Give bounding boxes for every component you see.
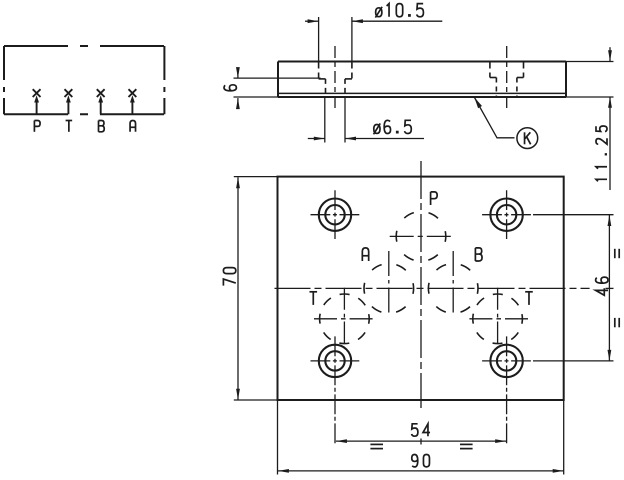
symbol port arrow B (100, 101, 102, 114)
symbol port label A (130, 121, 135, 132)
dimension 54 (336, 440, 506, 442)
symbol port label P (33, 121, 35, 132)
symbol port label B (98, 121, 100, 132)
bolt hole bottom-left crosshair (311, 360, 360, 362)
bolt hole top-right (490, 199, 522, 231)
symbol port arrow A (131, 101, 133, 114)
left counterbore hole (hidden lines) (319, 63, 352, 98)
dimension 46 (533, 215, 614, 361)
port T left label (309, 291, 317, 293)
symbol port label T (66, 120, 73, 122)
front view: horizontal centerline (275, 287, 590, 289)
bolt hole top-left crosshair (311, 214, 360, 216)
left hole centerline (334, 46, 336, 110)
port T right crosshair (469, 318, 528, 320)
port T right label (525, 291, 533, 293)
port A label (362, 248, 368, 261)
equal mark right (54) (460, 444, 473, 448)
port T left crosshair (314, 318, 373, 320)
port B label (474, 248, 476, 261)
bolt hole bottom-right crosshair (482, 360, 531, 362)
bolt hole bottom-left (319, 345, 351, 377)
equal mark left (54) (370, 444, 383, 448)
right counterbore hole (hidden lines) (490, 63, 524, 99)
equal mark lower (46) (615, 318, 619, 327)
symbol plugged mark A (x) (129, 89, 137, 97)
leader K (475, 98, 515, 138)
front view: vertical centerline (420, 161, 422, 408)
port T right (hidden circle) (473, 294, 523, 344)
port B vertical centerline (452, 251, 454, 316)
port P crosshair (390, 235, 451, 237)
dimension 70 (234, 177, 278, 400)
symbol plugged mark T (x) (65, 89, 73, 97)
bolt hole top-left (319, 199, 351, 231)
port P label (430, 192, 432, 205)
front view: plate outline (278, 177, 564, 400)
port T left (hidden circle) (320, 294, 370, 344)
side view: seal face line (K) (278, 92, 566, 94)
bolt hole bottom-right (490, 345, 522, 377)
equal mark upper (46) (615, 249, 619, 258)
dimension 11.25 (566, 47, 614, 190)
bolt hole top-right crosshair (482, 214, 531, 216)
port B (hidden circle) (428, 264, 478, 314)
symbol port arrow T (67, 101, 69, 114)
right hole centerline (506, 46, 508, 110)
symbol port arrow P (36, 101, 38, 114)
dimension 90 (278, 400, 564, 475)
port A (hidden circle) (364, 264, 414, 314)
side view: plate outline (278, 62, 566, 98)
symbol plugged mark B (x) (97, 89, 105, 97)
port P (hidden circle) (396, 212, 446, 262)
symbol view: mounting-face outline (dash-dot rectangle) (4, 46, 164, 114)
dimension 6 (thickness) (234, 68, 321, 107)
dimension o6.5 (308, 98, 424, 143)
port A vertical centerline (388, 251, 390, 316)
dimension o10.5 (305, 17, 442, 62)
symbol plugged mark P (x) (33, 89, 41, 97)
